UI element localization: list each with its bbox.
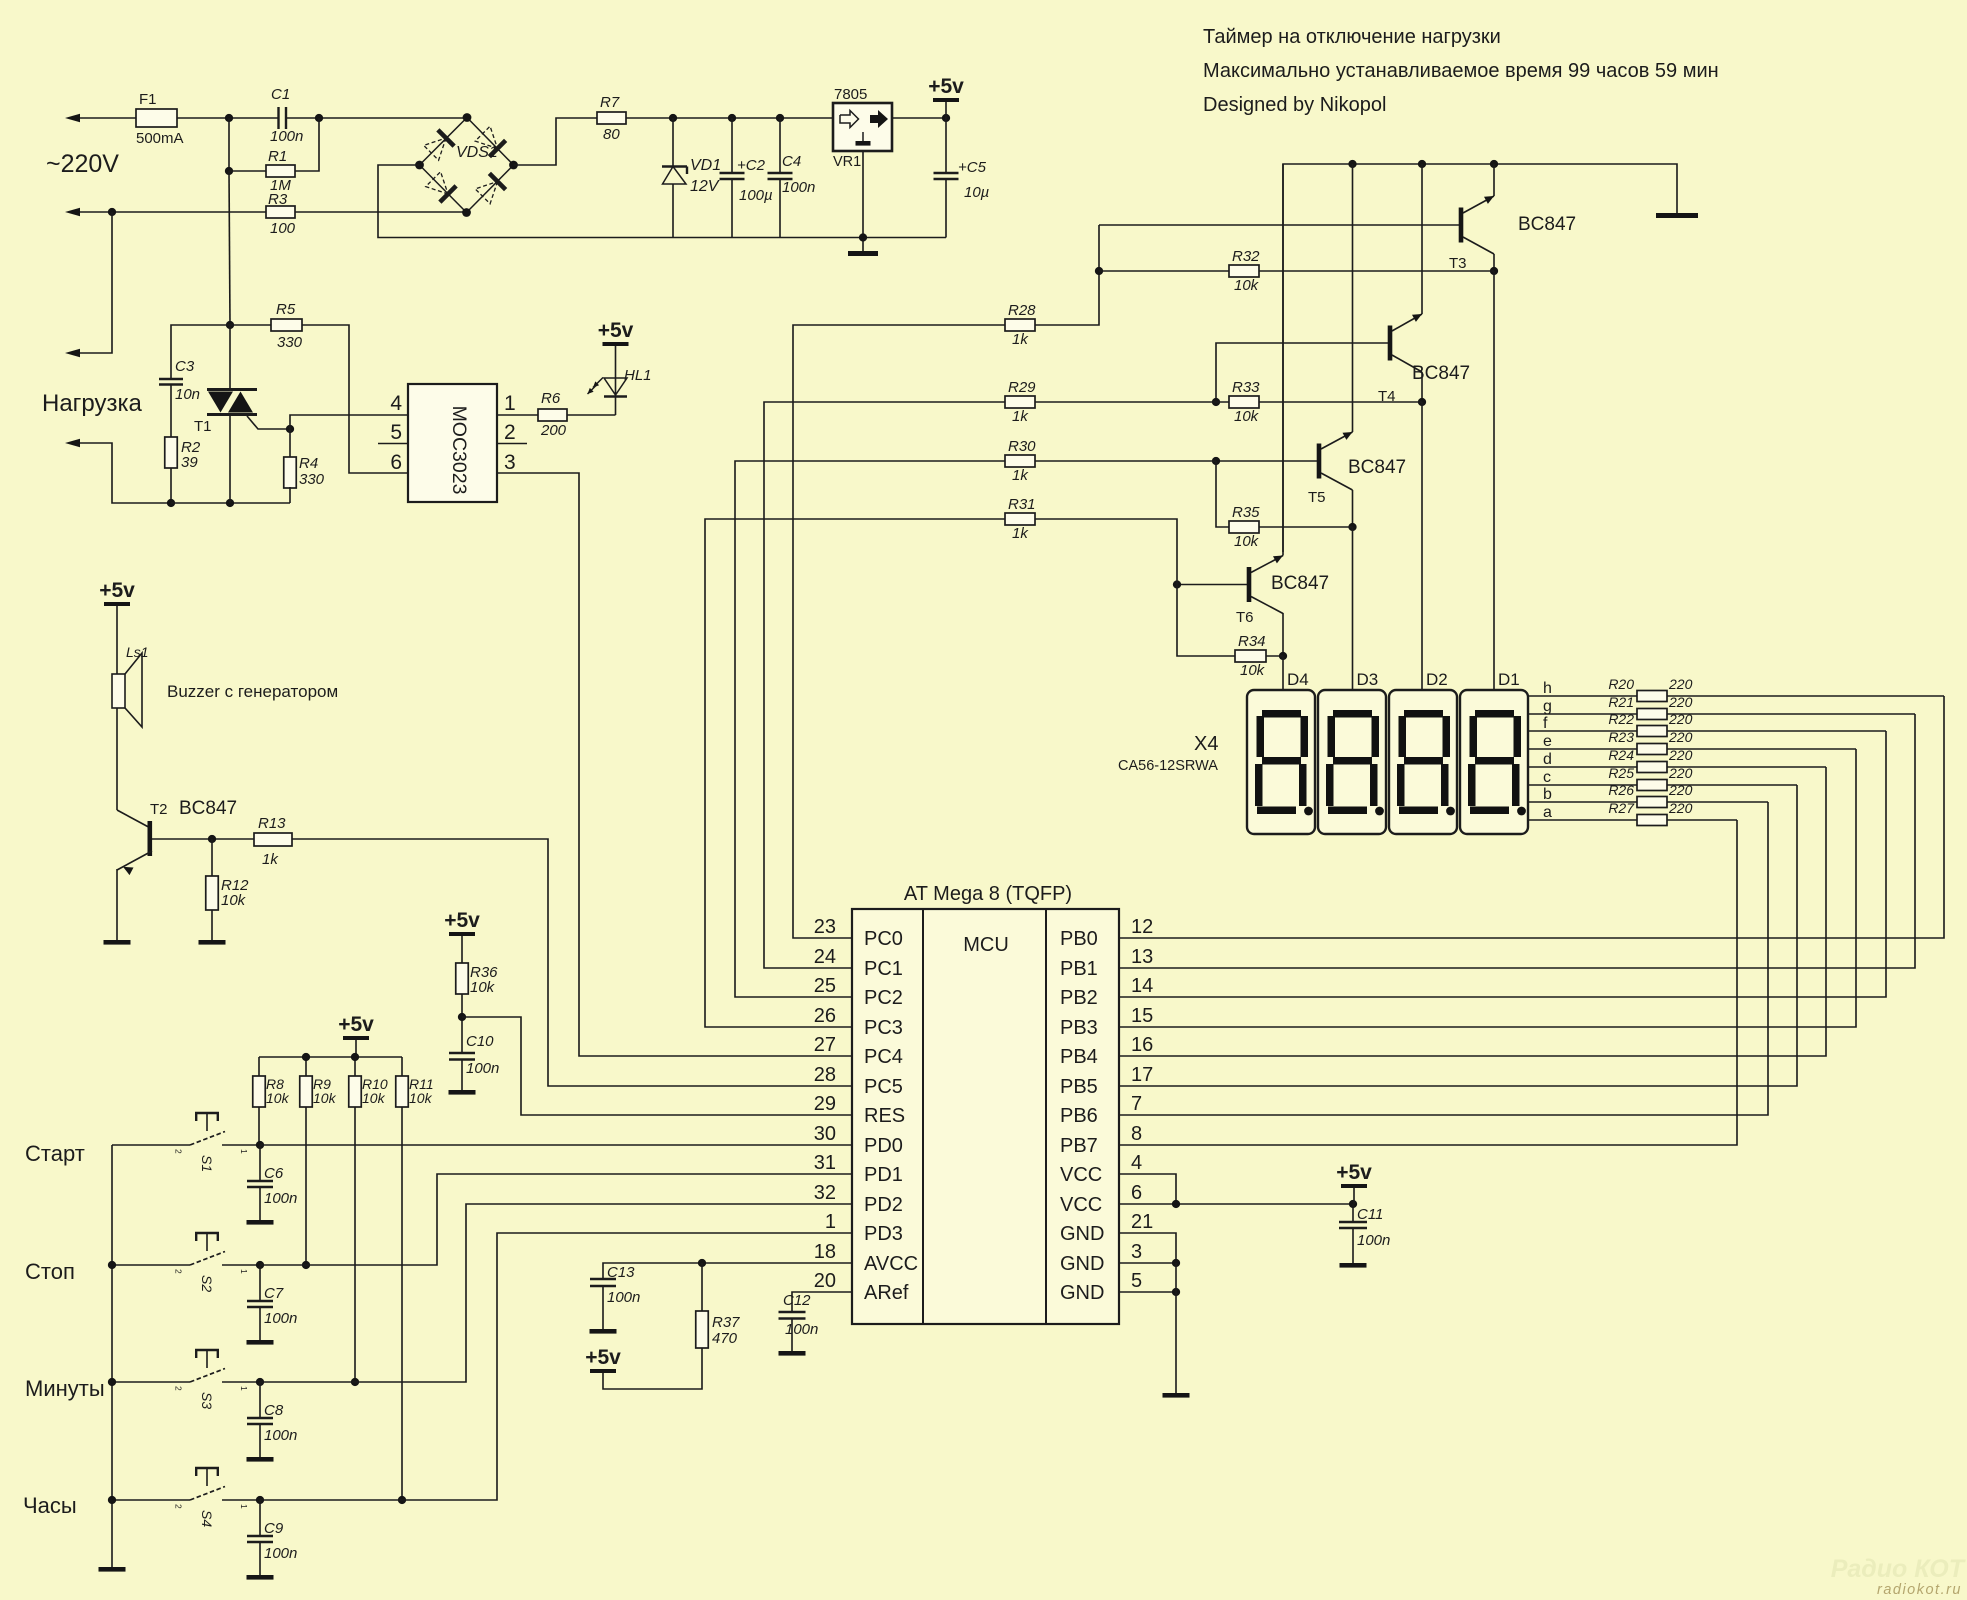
- node junction R36 C10 RES: [458, 1013, 466, 1021]
- node junction T5 collector R35: [1348, 523, 1356, 531]
- svg-text:BC847: BC847: [1271, 573, 1329, 594]
- wire R30 to T5 base: [1035, 460, 1216, 462]
- wire R33 to T4 collector: [1259, 401, 1422, 403]
- bridge diode top-left: [424, 138, 446, 160]
- svg-text:C12: C12: [783, 1292, 811, 1309]
- transistor T2 BC847: [117, 810, 149, 827]
- node junction T3 collector R32: [1490, 267, 1498, 275]
- resistor R30: [1005, 455, 1035, 467]
- svg-text:R1: R1: [268, 148, 287, 165]
- svg-text:VR1: VR1: [833, 154, 861, 170]
- ground R12: [199, 940, 226, 945]
- svg-text:4: 4: [390, 392, 402, 415]
- wire fuse to C1: [177, 117, 278, 119]
- svg-text:GND: GND: [1060, 1253, 1104, 1275]
- power +5v LED: [603, 342, 629, 346]
- svg-text:MOC3023: MOC3023: [448, 406, 470, 495]
- ground C6: [247, 1220, 274, 1225]
- ground display rail: [1656, 213, 1698, 218]
- node junction rail T5: [1348, 160, 1356, 168]
- svg-text:R27: R27: [1608, 800, 1635, 816]
- svg-text:a: a: [1543, 804, 1552, 821]
- wire neutral: [80, 211, 266, 213]
- resistor R9: [300, 1076, 313, 1107]
- wire PB3 to segment: [1119, 749, 1856, 1027]
- svg-text:R37: R37: [712, 1314, 740, 1331]
- ground C7: [247, 1340, 274, 1345]
- svg-text:T5: T5: [1308, 489, 1326, 506]
- resistor R2: [165, 437, 178, 468]
- svg-text:Ls1: Ls1: [126, 644, 149, 660]
- node junction C4 top: [776, 114, 784, 122]
- wire +5v to LED: [615, 346, 617, 415]
- svg-text:Минуты: Минуты: [25, 1376, 105, 1401]
- wire RES net: [462, 1017, 852, 1115]
- wire MOC pin3 to PC4: [497, 473, 852, 1056]
- buzzer Ls1: [112, 674, 125, 708]
- resistor R6: [538, 409, 567, 421]
- wire segment b: [1528, 801, 1637, 803]
- switch S3: [112, 1381, 190, 1383]
- svg-text:100n: 100n: [785, 1321, 818, 1338]
- resistor R32: [1099, 270, 1229, 272]
- wire D2 column: [1421, 402, 1423, 690]
- ground C8: [247, 1457, 274, 1462]
- wire T5 emitter column: [1352, 164, 1354, 432]
- svg-text:24: 24: [814, 946, 836, 968]
- AC live input arrow: [65, 114, 80, 122]
- wire T5 base: [1216, 460, 1317, 462]
- svg-text:D2: D2: [1426, 670, 1448, 689]
- svg-text:PB3: PB3: [1060, 1017, 1098, 1039]
- wire R8 to S1: [258, 1107, 260, 1145]
- svg-text:R22: R22: [1608, 711, 1634, 727]
- wire T3 collector: [1493, 254, 1495, 271]
- wire MOC pin1 to R6: [497, 414, 538, 416]
- node junction T6 collector R34: [1279, 652, 1287, 660]
- svg-text:R21: R21: [1608, 694, 1634, 710]
- svg-text:200: 200: [540, 422, 567, 439]
- transistor T3 BC847: [1459, 208, 1464, 243]
- resistor R12: [211, 839, 213, 876]
- svg-text:CA56-12SRWA: CA56-12SRWA: [1118, 758, 1218, 774]
- wire R10 to S3: [354, 1107, 356, 1382]
- wire segment g: [1528, 713, 1637, 715]
- svg-text:GND: GND: [1060, 1223, 1104, 1245]
- wire PB2 to segment: [1119, 731, 1886, 997]
- svg-text:1: 1: [239, 1386, 249, 1391]
- svg-text:C4: C4: [782, 153, 801, 170]
- svg-text:HL1: HL1: [624, 367, 652, 384]
- svg-text:radiokot.ru: radiokot.ru: [1877, 1582, 1962, 1598]
- wire segment d to PB: [1667, 766, 1826, 768]
- resistor R33: [1229, 396, 1259, 408]
- wire T4 collector: [1421, 372, 1423, 402]
- wire segment h: [1528, 695, 1637, 697]
- power +5v buzzer: [104, 602, 130, 606]
- svg-text:31: 31: [814, 1152, 836, 1174]
- wire segment c: [1528, 784, 1637, 786]
- wire segment g to PB: [1667, 713, 1915, 715]
- node junction S2 R9: [302, 1261, 310, 1269]
- node junction GND3: [1172, 1259, 1180, 1267]
- svg-text:c: c: [1543, 769, 1551, 786]
- wire R36 to C10: [461, 994, 463, 1053]
- bridge rectifier VDS1: [420, 118, 468, 166]
- wire segment h to PB: [1667, 695, 1944, 697]
- node junction S4 R11: [398, 1496, 406, 1504]
- node junction VD1 top: [669, 114, 677, 122]
- wire R6 to LED: [567, 414, 616, 416]
- resistor R31: [1005, 513, 1035, 525]
- wire R31 to T6 base: [1035, 519, 1177, 585]
- svg-text:R20: R20: [1608, 676, 1634, 692]
- svg-text:100n: 100n: [264, 1310, 297, 1327]
- svg-text:+5v: +5v: [585, 1346, 621, 1369]
- resistor R7: [597, 112, 626, 124]
- wire PC2 to R30: [735, 461, 1005, 997]
- load upper arrow: [65, 349, 80, 357]
- node junction T4 collector R33: [1418, 398, 1426, 406]
- node junction bus R10: [351, 1053, 359, 1061]
- svg-text:PC0: PC0: [864, 928, 903, 950]
- svg-text:C1: C1: [271, 86, 290, 103]
- svg-text:D1: D1: [1498, 670, 1520, 689]
- svg-text:X4: X4: [1194, 733, 1218, 755]
- svg-text:C9: C9: [264, 1520, 284, 1537]
- svg-text:220: 220: [1668, 782, 1693, 798]
- resistor R26: [1637, 797, 1667, 808]
- svg-text:220: 220: [1668, 729, 1693, 745]
- ground C11: [1340, 1263, 1367, 1268]
- wire PC0 to R28: [793, 325, 1005, 938]
- svg-text:PC1: PC1: [864, 958, 903, 980]
- svg-text:10k: 10k: [221, 892, 247, 909]
- resistor R4: [289, 429, 291, 458]
- svg-text:7: 7: [1131, 1093, 1142, 1115]
- svg-text:17: 17: [1131, 1064, 1153, 1086]
- svg-text:100n: 100n: [270, 128, 303, 145]
- svg-text:C8: C8: [264, 1402, 284, 1419]
- wire neutral branch to load upper arrow: [80, 212, 112, 353]
- svg-text:C10: C10: [466, 1033, 494, 1050]
- svg-text:4: 4: [1131, 1152, 1142, 1174]
- svg-text:Нагрузка: Нагрузка: [42, 390, 143, 417]
- svg-text:100n: 100n: [1357, 1232, 1390, 1249]
- fuse F1: [136, 109, 177, 127]
- svg-text:GND: GND: [1060, 1282, 1104, 1304]
- svg-text:26: 26: [814, 1005, 836, 1027]
- svg-text:100µ: 100µ: [739, 187, 773, 204]
- svg-text:1k: 1k: [1012, 467, 1029, 484]
- svg-text:5: 5: [390, 421, 402, 444]
- capacitor C10: [449, 1052, 475, 1054]
- svg-text:Старт: Старт: [25, 1141, 85, 1166]
- svg-text:D3: D3: [1357, 670, 1379, 689]
- svg-text:S2: S2: [199, 1275, 215, 1292]
- resistor R22: [1637, 726, 1667, 737]
- resistor R29: [1005, 396, 1035, 408]
- transistor T6 BC847: [1247, 567, 1252, 602]
- svg-text:1: 1: [504, 392, 516, 415]
- svg-text:1: 1: [825, 1211, 836, 1233]
- zener diode VD1: [672, 118, 674, 166]
- svg-text:D4: D4: [1287, 670, 1309, 689]
- svg-text:F1: F1: [139, 91, 157, 108]
- svg-text:12: 12: [1131, 916, 1153, 938]
- capacitor C1: [277, 107, 279, 129]
- svg-text:10k: 10k: [409, 1090, 433, 1106]
- node junction R30 R35: [1212, 457, 1220, 465]
- svg-text:PD1: PD1: [864, 1164, 903, 1186]
- svg-text:e: e: [1543, 733, 1552, 750]
- wire segment f to PB: [1667, 730, 1886, 732]
- display digit D1: [1460, 690, 1528, 834]
- svg-text:10k: 10k: [313, 1090, 337, 1106]
- wire R34 left: [1177, 585, 1235, 657]
- wire VCC pin4: [1119, 1174, 1176, 1204]
- svg-text:10k: 10k: [266, 1090, 290, 1106]
- svg-text:PC5: PC5: [864, 1076, 903, 1098]
- node junction R29 R33: [1212, 398, 1220, 406]
- svg-text:2: 2: [174, 1386, 184, 1391]
- node junction VCC: [1172, 1200, 1180, 1208]
- svg-text:2: 2: [174, 1269, 184, 1274]
- wire R34 to T6 collector: [1266, 655, 1283, 657]
- ground main supply: [848, 251, 878, 256]
- wire segment e to PB: [1667, 748, 1856, 750]
- svg-text:1: 1: [239, 1149, 249, 1154]
- svg-text:BC847: BC847: [179, 798, 237, 819]
- wire R11 to S4: [401, 1107, 403, 1500]
- svg-text:20: 20: [814, 1270, 836, 1292]
- node bridge DC plus: [509, 161, 518, 170]
- wire R1 right up: [295, 118, 319, 171]
- wire segment d: [1528, 766, 1637, 768]
- wire D4 column: [1282, 656, 1284, 690]
- svg-text:7805: 7805: [834, 86, 867, 103]
- svg-text:15: 15: [1131, 1005, 1153, 1027]
- wire GND pin21: [1119, 1233, 1176, 1263]
- resistor R27: [1637, 815, 1667, 826]
- svg-text:R7: R7: [600, 94, 620, 111]
- wire PC1 to R29: [764, 402, 1005, 968]
- svg-text:C6: C6: [264, 1165, 284, 1182]
- svg-text:T2: T2: [150, 801, 168, 818]
- node junction C1-R1 right: [315, 114, 323, 122]
- svg-text:14: 14: [1131, 975, 1153, 997]
- ground C13: [590, 1329, 617, 1334]
- svg-text:5: 5: [1131, 1270, 1142, 1292]
- wire T2 base: [152, 838, 254, 840]
- svg-text:1k: 1k: [262, 851, 279, 868]
- svg-text:10k: 10k: [1234, 408, 1260, 425]
- svg-text:S4: S4: [199, 1510, 215, 1527]
- svg-text:220: 220: [1668, 747, 1693, 763]
- wire bridge plus to R7: [514, 118, 598, 165]
- capacitor C4: [779, 118, 781, 173]
- wire S1 to PD0: [260, 1144, 852, 1146]
- capacitor C7: [259, 1265, 261, 1301]
- wire T2 emitter to ground: [116, 869, 118, 940]
- wire R1 column top: [228, 118, 230, 171]
- svg-text:100n: 100n: [264, 1427, 297, 1444]
- svg-text:PD2: PD2: [864, 1194, 903, 1216]
- wire R32 to T3 collector: [1259, 270, 1494, 272]
- resistor R11: [396, 1076, 409, 1107]
- svg-text:PB1: PB1: [1060, 958, 1098, 980]
- capacitor C5: [945, 118, 947, 173]
- svg-text:32: 32: [814, 1182, 836, 1204]
- node junction S3 R10: [351, 1378, 359, 1386]
- svg-text:18: 18: [814, 1241, 836, 1263]
- wire R12 to ground: [211, 910, 213, 940]
- node bridge AC bottom: [462, 208, 471, 217]
- resistor R1: [229, 170, 266, 172]
- svg-text:VCC: VCC: [1060, 1194, 1102, 1216]
- wire live input to fuse: [80, 117, 136, 119]
- power +5v buttons: [343, 1036, 369, 1040]
- svg-text:Максимально устанавливаемое вр: Максимально устанавливаемое время 99 час…: [1203, 60, 1719, 82]
- capacitor C2: [731, 118, 733, 173]
- wire PB1 to segment: [1119, 714, 1915, 968]
- node junction rail T4: [1418, 160, 1426, 168]
- capacitor C3: [159, 378, 183, 380]
- triac T1: [229, 325, 231, 388]
- svg-text:25: 25: [814, 975, 836, 997]
- svg-text:VD1: VD1: [690, 157, 721, 174]
- wire R5 left corner to C3: [171, 325, 230, 379]
- svg-text:T3: T3: [1449, 255, 1467, 272]
- svg-text:R28: R28: [1008, 302, 1036, 319]
- svg-text:R6: R6: [541, 390, 561, 407]
- wire T4 base: [1216, 343, 1388, 402]
- svg-text:16: 16: [1131, 1034, 1153, 1056]
- svg-text:6: 6: [1131, 1182, 1142, 1204]
- resistor R36: [456, 963, 469, 994]
- node junction rail S4: [108, 1496, 116, 1504]
- power +5v C11: [1341, 1184, 1367, 1188]
- svg-text:AVCC: AVCC: [864, 1253, 918, 1275]
- wire T3 emitter: [1493, 164, 1495, 196]
- node junction snubber rail left: [167, 499, 175, 507]
- power +5v R37: [590, 1369, 616, 1373]
- svg-text:220: 220: [1668, 676, 1693, 692]
- wire C3 to R2: [170, 385, 172, 438]
- wire snubber rail: [171, 502, 290, 504]
- wire segment c to PB: [1667, 784, 1797, 786]
- wire regulator ground: [862, 151, 864, 251]
- svg-text:10k: 10k: [1234, 533, 1260, 550]
- svg-text:10k: 10k: [1240, 662, 1266, 679]
- load lower arrow: [65, 439, 80, 447]
- wire load lower arrow to snubber rail: [80, 443, 171, 503]
- node junction regulator ground: [859, 233, 867, 241]
- svg-text:23: 23: [814, 916, 836, 938]
- wire GND pin5: [1119, 1291, 1176, 1293]
- resistor R28: [1005, 319, 1035, 331]
- wire T6 collector: [1282, 613, 1284, 656]
- wire R13 to PC5: [292, 839, 852, 1086]
- svg-text:+C5: +C5: [958, 159, 987, 176]
- display digit D2: [1389, 690, 1457, 834]
- wire T6 base: [1177, 584, 1247, 586]
- svg-text:T6: T6: [1236, 609, 1254, 626]
- svg-text:10k: 10k: [1234, 277, 1260, 294]
- svg-text:2: 2: [174, 1504, 184, 1509]
- resistor R25: [1637, 780, 1667, 791]
- svg-text:R33: R33: [1232, 379, 1260, 396]
- svg-text:R34: R34: [1238, 633, 1266, 650]
- node junction S2: [256, 1261, 264, 1269]
- svg-text:g: g: [1543, 698, 1552, 715]
- node junction GND5: [1172, 1288, 1180, 1296]
- svg-text:R24: R24: [1608, 747, 1634, 763]
- wire R28 corner: [1035, 225, 1099, 325]
- wire VCC pin6 to C11: [1119, 1203, 1353, 1205]
- svg-text:220: 220: [1668, 800, 1693, 816]
- display digit D4: [1247, 690, 1315, 834]
- svg-text:+5v: +5v: [1336, 1161, 1372, 1184]
- wire segment b to PB: [1667, 801, 1768, 803]
- svg-text:R23: R23: [1608, 729, 1634, 745]
- resistor R37: [701, 1263, 703, 1311]
- svg-text:R35: R35: [1232, 504, 1260, 521]
- svg-text:10k: 10k: [470, 979, 496, 996]
- svg-text:1: 1: [239, 1504, 249, 1509]
- node junction R31 R34: [1173, 580, 1181, 588]
- svg-text:1k: 1k: [1012, 525, 1029, 542]
- svg-text:PD3: PD3: [864, 1223, 903, 1245]
- svg-text:R29: R29: [1008, 379, 1036, 396]
- svg-text:30: 30: [814, 1123, 836, 1145]
- svg-text:13: 13: [1131, 946, 1153, 968]
- svg-text:C11: C11: [1357, 1206, 1383, 1223]
- svg-text:C3: C3: [175, 358, 195, 375]
- svg-text:330: 330: [277, 334, 303, 351]
- svg-text:29: 29: [814, 1093, 836, 1115]
- wire PB0 to segment: [1119, 696, 1944, 938]
- resistor R5: [230, 324, 271, 326]
- wire R35 to T5 collector: [1259, 526, 1353, 528]
- resistor R20: [1637, 691, 1667, 702]
- svg-text:BC847: BC847: [1412, 363, 1470, 384]
- transistor T4 BC847: [1388, 326, 1393, 361]
- wire PB7 to segment: [1119, 820, 1737, 1145]
- wire PB4 to segment: [1119, 767, 1826, 1056]
- svg-text:PB4: PB4: [1060, 1046, 1098, 1068]
- wire segment a: [1528, 819, 1637, 821]
- wire segment e: [1528, 748, 1637, 750]
- capacitor C6: [259, 1145, 261, 1181]
- wire button common rail: [111, 1145, 113, 1567]
- svg-text:220: 220: [1668, 711, 1693, 727]
- node junction S4: [256, 1496, 264, 1504]
- svg-text:+5v: +5v: [338, 1013, 374, 1036]
- ground C9: [247, 1575, 274, 1580]
- wire R37 to +5v: [603, 1348, 702, 1389]
- svg-text:AT Mega 8 (TQFP): AT Mega 8 (TQFP): [904, 883, 1072, 905]
- wire C1 to bridge top: [286, 117, 467, 119]
- node bridge AC top: [463, 113, 472, 122]
- svg-text:330: 330: [299, 471, 325, 488]
- resistor R13: [254, 833, 292, 846]
- resistor R10: [349, 1076, 362, 1107]
- svg-text:R4: R4: [299, 455, 318, 472]
- resistor R21: [1637, 709, 1667, 720]
- svg-text:100n: 100n: [264, 1545, 297, 1562]
- capacitor C8: [259, 1382, 261, 1418]
